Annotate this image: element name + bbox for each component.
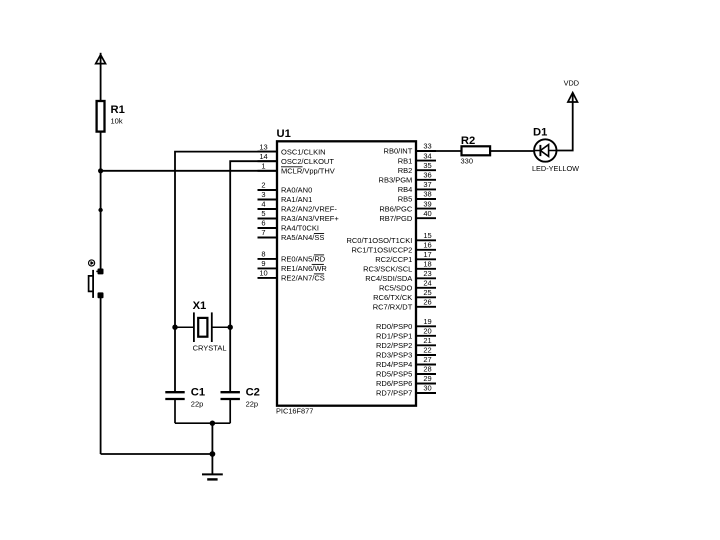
- junction caps/ground: [210, 421, 215, 426]
- wire R1 bottom to MCLR junction: [100, 132, 102, 171]
- svg-text:RB4: RB4: [398, 185, 413, 194]
- wire OSC2 pin14 net: [230, 161, 277, 392]
- svg-text:RD4/PSP4: RD4/PSP4: [376, 360, 412, 369]
- svg-text:RC6/TX/CK: RC6/TX/CK: [373, 293, 412, 302]
- pin 29 RD6/PSP6 (right): [376, 374, 436, 388]
- pin 40 RB7/PGD (right): [379, 209, 436, 223]
- svg-text:35: 35: [423, 161, 431, 170]
- svg-text:MCLR/Vpp/THV: MCLR/Vpp/THV: [281, 167, 335, 176]
- pin 1 MCLR/Vpp/THV (left): [258, 162, 335, 176]
- pin 21 RD2/PSP2 (right): [376, 336, 436, 350]
- svg-text:21: 21: [423, 336, 431, 345]
- power arrow VDD: [568, 93, 578, 102]
- svg-text:RB5: RB5: [398, 195, 413, 204]
- svg-text:36: 36: [423, 171, 431, 180]
- svg-text:OSC1/CLKIN: OSC1/CLKIN: [281, 147, 326, 156]
- junction at ground stem: [210, 451, 216, 457]
- svg-text:RB1: RB1: [398, 156, 413, 165]
- svg-text:RC7/RX/DT: RC7/RX/DT: [373, 303, 413, 312]
- pin 30 RD7/PSP7 (right): [376, 384, 436, 398]
- pin 14 OSC2/CLKOUT (left): [258, 152, 335, 166]
- svg-text:20: 20: [423, 327, 431, 336]
- resistor R1: [97, 101, 105, 132]
- svg-text:24: 24: [423, 279, 431, 288]
- svg-text:RB6/PGC: RB6/PGC: [379, 204, 413, 213]
- pin 15 RC0/T1OSO/T1CKI (right): [346, 231, 436, 245]
- svg-text:R1: R1: [111, 104, 125, 116]
- svg-text:22: 22: [423, 346, 431, 355]
- svg-text:U1: U1: [277, 128, 291, 140]
- svg-text:330: 330: [461, 157, 474, 166]
- junction OSC1/crystal: [172, 325, 177, 330]
- svg-text:RC1/T1OSI/CCP2: RC1/T1OSI/CCP2: [351, 246, 412, 255]
- svg-text:RB2: RB2: [398, 166, 413, 175]
- svg-text:7: 7: [261, 228, 265, 237]
- svg-text:33: 33: [423, 142, 431, 151]
- pin 19 RD0/PSP0 (right): [376, 317, 436, 331]
- svg-text:LED-YELLOW: LED-YELLOW: [532, 164, 579, 173]
- svg-text:22p: 22p: [246, 400, 259, 409]
- svg-text:22p: 22p: [191, 400, 204, 409]
- svg-text:RC4/SDI/SDA: RC4/SDI/SDA: [365, 274, 412, 283]
- pin 20 RD1/PSP1 (right): [376, 327, 436, 341]
- pin 16 RC1/T1OSI/CCP2 (right): [351, 241, 436, 255]
- crystal X1: [175, 312, 230, 342]
- pin 5 RA3/AN3/VREF+ (left): [258, 209, 340, 223]
- svg-text:6: 6: [261, 219, 265, 228]
- pin 34 RB1 (right): [398, 151, 436, 165]
- svg-text:RB7/PGD: RB7/PGD: [379, 214, 413, 223]
- wire down to button: [100, 171, 102, 272]
- LED D1: [534, 139, 556, 161]
- svg-text:RC2/CCP1: RC2/CCP1: [375, 255, 412, 264]
- pin 25 RC6/TX/CK (right): [373, 288, 436, 302]
- svg-text:RB0/INT: RB0/INT: [384, 147, 413, 156]
- wire ground stem: [211, 423, 213, 474]
- svg-text:25: 25: [423, 288, 431, 297]
- svg-text:34: 34: [423, 151, 431, 160]
- pin 28 RD5/PSP5 (right): [376, 365, 436, 379]
- svg-text:RD7/PSP7: RD7/PSP7: [376, 389, 412, 398]
- svg-text:15: 15: [423, 231, 431, 240]
- wire MCLR net horizontal to pin 1: [101, 170, 277, 172]
- svg-text:RA1/AN1: RA1/AN1: [281, 195, 312, 204]
- svg-text:CRYSTAL: CRYSTAL: [193, 344, 227, 353]
- svg-text:3: 3: [261, 190, 265, 199]
- svg-text:C1: C1: [191, 387, 205, 399]
- chip U1 body: [277, 141, 416, 405]
- wire bottom rail to ground junction: [101, 453, 213, 455]
- svg-text:C2: C2: [246, 387, 260, 399]
- svg-text:10: 10: [259, 269, 267, 278]
- svg-text:VDD: VDD: [564, 79, 579, 88]
- svg-text:RC5/SDO: RC5/SDO: [379, 284, 413, 293]
- junction OSC2/crystal: [228, 325, 233, 330]
- svg-text:29: 29: [423, 374, 431, 383]
- wire RB0 pin33 to R2: [436, 150, 462, 152]
- pin 39 RB6/PGC (right): [379, 199, 436, 213]
- svg-text:16: 16: [423, 241, 431, 250]
- svg-text:RC3/SCK/SCL: RC3/SCK/SCL: [363, 265, 412, 274]
- svg-text:RD2/PSP2: RD2/PSP2: [376, 341, 412, 350]
- svg-text:D1: D1: [533, 127, 547, 139]
- pin 38 RB5 (right): [398, 190, 436, 204]
- svg-text:R2: R2: [461, 135, 475, 147]
- pin 17 RC2/CCP1 (right): [375, 250, 436, 264]
- capacitor C2: [221, 392, 240, 423]
- svg-text:28: 28: [423, 365, 431, 374]
- pin 18 RC3/SCK/SCL (right): [363, 260, 436, 274]
- svg-text:OSC2/CLKOUT: OSC2/CLKOUT: [281, 157, 334, 166]
- svg-text:RA3/AN3/VREF+: RA3/AN3/VREF+: [281, 214, 339, 223]
- junction dot on vertical wire: [98, 208, 102, 212]
- svg-text:RA4/T0CKI: RA4/T0CKI: [281, 224, 319, 233]
- svg-text:RD0/PSP0: RD0/PSP0: [376, 322, 412, 331]
- pin 37 RB4 (right): [398, 180, 436, 194]
- pin 24 RC5/SDO (right): [379, 279, 436, 293]
- pin 3 RA1/AN1 (left): [258, 190, 313, 204]
- pin 13 OSC1/CLKIN (left): [258, 142, 326, 156]
- ground symbol: [202, 474, 223, 479]
- svg-text:2: 2: [261, 181, 265, 190]
- wire cap bottoms join: [175, 422, 230, 424]
- svg-text:37: 37: [423, 180, 431, 189]
- svg-text:RB3/PGM: RB3/PGM: [379, 176, 413, 185]
- pin 8 RE0/AN5/RD (left): [258, 250, 326, 264]
- pin 4 RA2/AN2/VREF- (left): [258, 200, 338, 214]
- pin 7 RA5/AN4/SS (left): [258, 228, 325, 242]
- svg-text:RA0/AN0: RA0/AN0: [281, 186, 312, 195]
- junction MCLR net: [98, 168, 103, 173]
- svg-text:RA2/AN2/VREF-: RA2/AN2/VREF-: [281, 205, 337, 214]
- svg-text:RE0/AN5/RD: RE0/AN5/RD: [281, 255, 326, 264]
- svg-text:X1: X1: [193, 300, 207, 312]
- svg-text:RD5/PSP5: RD5/PSP5: [376, 370, 412, 379]
- svg-text:14: 14: [259, 152, 267, 161]
- pin 22 RD3/PSP3 (right): [376, 346, 436, 360]
- pin 10 RE2/AN7/CS (left): [258, 269, 325, 283]
- svg-text:39: 39: [423, 199, 431, 208]
- pin 36 RB3/PGM (right): [379, 171, 436, 185]
- svg-text:RA5/AN4/SS: RA5/AN4/SS: [281, 233, 324, 242]
- svg-text:9: 9: [261, 259, 265, 268]
- pin 27 RD4/PSP4 (right): [376, 355, 436, 369]
- svg-text:4: 4: [261, 200, 265, 209]
- svg-text:17: 17: [423, 250, 431, 259]
- svg-text:8: 8: [261, 250, 265, 259]
- svg-text:5: 5: [261, 209, 265, 218]
- svg-text:13: 13: [259, 142, 267, 151]
- pin 6 RA4/T0CKI (left): [258, 219, 319, 233]
- svg-text:RD6/PSP6: RD6/PSP6: [376, 379, 412, 388]
- svg-text:RD3/PSP3: RD3/PSP3: [376, 351, 412, 360]
- pin 35 RB2 (right): [398, 161, 436, 175]
- svg-text:10k: 10k: [111, 117, 123, 126]
- pin 9 RE1/AN6/WR (left): [258, 259, 328, 273]
- svg-text:40: 40: [423, 209, 431, 218]
- svg-text:PIC16F877: PIC16F877: [276, 407, 313, 416]
- capacitor C1: [165, 392, 184, 423]
- svg-text:18: 18: [423, 260, 431, 269]
- svg-text:19: 19: [423, 317, 431, 326]
- svg-text:30: 30: [423, 384, 431, 393]
- pin 2 RA0/AN0 (left): [258, 181, 313, 195]
- svg-text:RC0/T1OSO/T1CKI: RC0/T1OSO/T1CKI: [346, 236, 412, 245]
- pin 33 RB0/INT (right): [384, 142, 436, 156]
- wire LED to VDD riser: [557, 93, 573, 151]
- pin 23 RC4/SDI/SDA (right): [365, 269, 436, 283]
- wire R2 to LED D1: [490, 150, 534, 152]
- svg-text:1: 1: [261, 162, 265, 171]
- svg-text:26: 26: [423, 298, 431, 307]
- svg-text:23: 23: [423, 269, 431, 278]
- svg-text:27: 27: [423, 355, 431, 364]
- svg-text:RE1/AN6/WR: RE1/AN6/WR: [281, 264, 327, 273]
- resistor R2: [462, 146, 491, 155]
- svg-text:RD1/PSP1: RD1/PSP1: [376, 332, 412, 341]
- wire button to bottom rail: [100, 295, 102, 454]
- svg-text:RE2/AN7/CS: RE2/AN7/CS: [281, 274, 325, 283]
- power arrow VCC (top left): [96, 53, 106, 101]
- svg-text:38: 38: [423, 190, 431, 199]
- button (push button to ground): [89, 260, 104, 298]
- pin 26 RC7/RX/DT (right): [373, 298, 436, 312]
- wire OSC1 pin13 net: [175, 152, 277, 393]
